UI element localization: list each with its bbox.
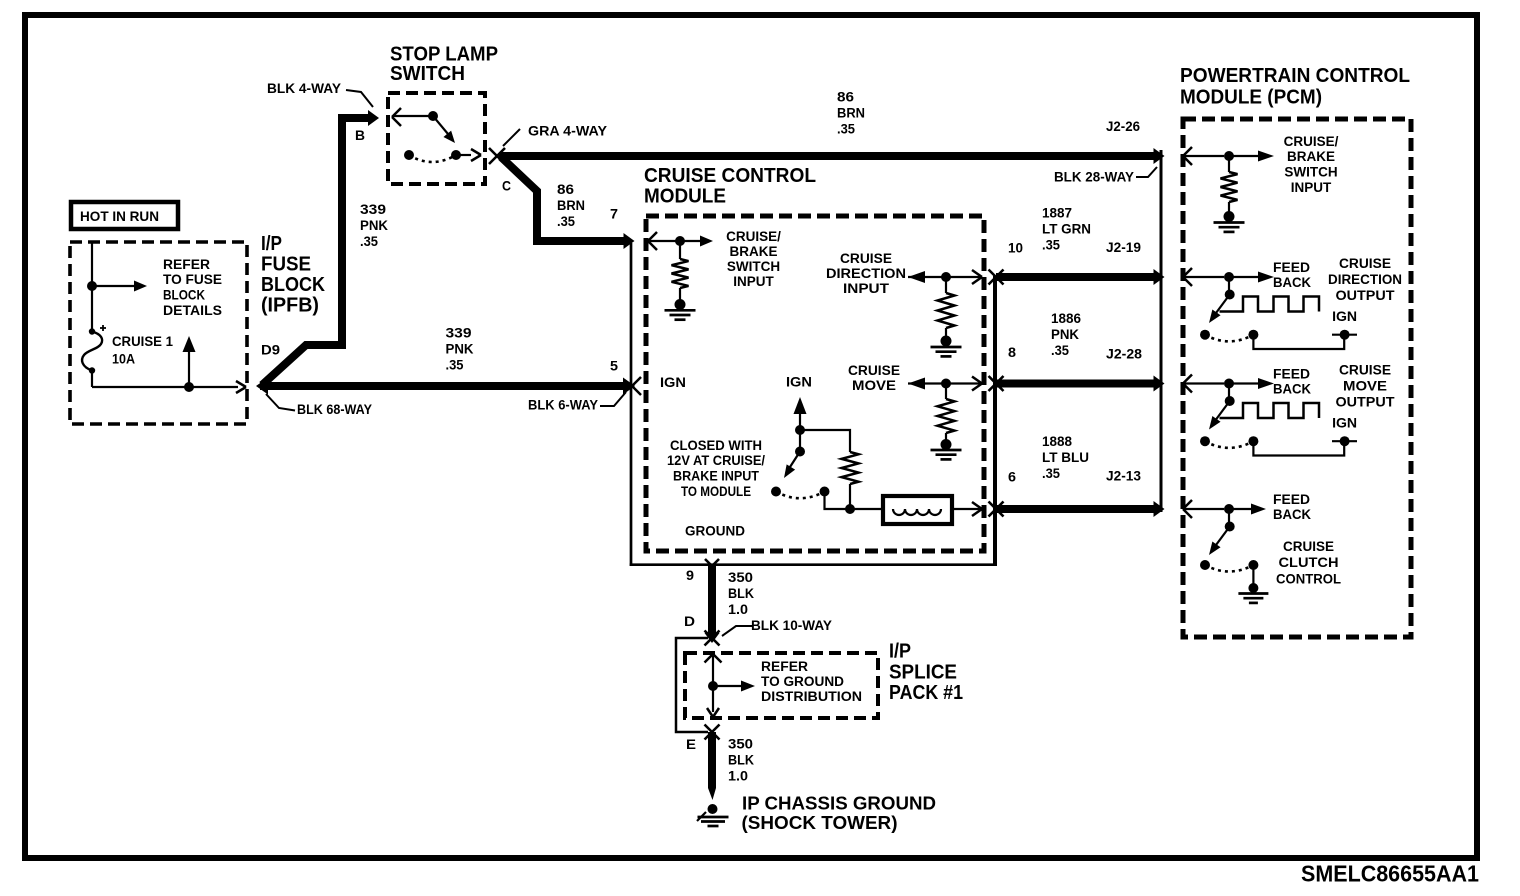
svg-text:OUTPUT: OUTPUT xyxy=(1336,288,1396,303)
svg-text:8: 8 xyxy=(1008,345,1017,360)
svg-text:1886: 1886 xyxy=(1051,311,1081,326)
svg-text:BLOCK: BLOCK xyxy=(163,288,205,303)
J2-13 chevron xyxy=(1183,500,1192,518)
label BLK 6-WAY xyxy=(528,398,598,413)
wire contact to coil xyxy=(825,492,882,510)
resistor R direction xyxy=(938,277,955,337)
node switch pivot dot xyxy=(428,111,438,121)
svg-text:6: 6 xyxy=(1008,469,1017,484)
svg-text:D: D xyxy=(684,614,695,629)
svg-text:BLK 68-WAY: BLK 68-WAY xyxy=(297,402,372,417)
label C xyxy=(502,179,511,194)
switch arm with arrow (module) xyxy=(784,452,800,479)
svg-text:BLK: BLK xyxy=(728,586,754,601)
label CRUISE MOVE OUTPUT xyxy=(1336,362,1396,409)
svg-text:BRAKE: BRAKE xyxy=(729,244,777,259)
wire junction to fuse xyxy=(91,286,93,331)
svg-text:CLOSED WITH: CLOSED WITH xyxy=(670,438,762,453)
label 1887 LT GRN .35 xyxy=(1042,206,1091,253)
wire 350 BLK to splice pack xyxy=(705,566,720,646)
svg-text:INPUT: INPUT xyxy=(1291,180,1332,195)
svg-text:CRUISE: CRUISE xyxy=(1339,256,1391,271)
node move resistor foot dot xyxy=(941,439,952,450)
node junction dot on output row xyxy=(184,382,194,392)
splice exit open arrow xyxy=(707,708,719,717)
svg-text:OUTPUT: OUTPUT xyxy=(1336,395,1396,410)
node direction resistor foot dot xyxy=(941,336,952,347)
svg-text:B: B xyxy=(355,128,365,143)
wire 350 BLK to chassis ground xyxy=(705,725,720,801)
label 339 PNK .35 (riser) xyxy=(360,202,388,249)
pin6 line and open arrow xyxy=(952,502,982,516)
wire 339 PNK D9 up to stop lamp switch B xyxy=(262,110,379,385)
label BLK 68-WAY xyxy=(297,402,372,417)
svg-text:CONTROL: CONTROL xyxy=(1276,571,1341,586)
svg-text:.35: .35 xyxy=(1042,238,1060,253)
svg-text:.35: .35 xyxy=(446,357,464,372)
ground (move) xyxy=(931,450,962,459)
coil box (clutch solenoid) xyxy=(883,496,952,524)
svg-text:(IPFB): (IPFB) xyxy=(261,294,319,316)
J2-13 line to junction xyxy=(1184,508,1224,510)
node J2-26 junction dot xyxy=(1224,151,1234,161)
svg-text:REFER: REFER xyxy=(163,257,210,272)
svg-text:MOVE: MOVE xyxy=(852,378,896,393)
svg-text:CRUISE: CRUISE xyxy=(1283,539,1334,554)
node resistor foot dot xyxy=(675,299,686,310)
svg-text:1887: 1887 xyxy=(1042,206,1072,221)
svg-text:HOT IN RUN: HOT IN RUN xyxy=(80,208,159,224)
power feed box HOT IN RUN xyxy=(71,202,178,229)
arrow feed back (direction) xyxy=(1229,272,1274,283)
label 1888 LT BLU .35 xyxy=(1042,434,1089,481)
label 6 xyxy=(1008,469,1017,484)
arrow to ground distribution note xyxy=(713,681,755,692)
wire fuse to output row xyxy=(92,371,238,388)
node pin7 junction dot xyxy=(675,236,685,246)
svg-text:DIRECTION: DIRECTION xyxy=(826,266,906,281)
label J2-13 xyxy=(1106,469,1141,484)
stop lamp switch dashed outline xyxy=(388,93,485,184)
svg-text:(SHOCK TOWER): (SHOCK TOWER) xyxy=(742,812,898,833)
node direction contact dot xyxy=(1200,330,1210,340)
svg-text:1.0: 1.0 xyxy=(728,602,748,617)
svg-text:E: E xyxy=(686,737,696,752)
label D9 xyxy=(261,342,280,357)
node clutch switch pivot dot xyxy=(1225,509,1235,532)
svg-text:BACK: BACK xyxy=(1273,507,1311,522)
node clutch ground dot xyxy=(1248,583,1258,593)
connector fishtail at C xyxy=(489,148,505,164)
splice entry chevron xyxy=(705,654,722,663)
label 10 xyxy=(1008,241,1023,256)
label CLOSED WITH 12V AT CRUISE/ BRAKE INPUT TO MODULE xyxy=(667,438,765,499)
label GRA 4-WAY xyxy=(528,124,607,139)
connector chevron at B xyxy=(392,108,401,126)
switch throw dashed arc (direction) xyxy=(1205,335,1253,342)
J2-28 chevron xyxy=(1183,375,1192,393)
svg-text:CRUISE/: CRUISE/ xyxy=(1284,134,1339,149)
label I/P SPLICE PACK #1 xyxy=(889,641,963,704)
I/P fuse block IPFB dashed outline xyxy=(70,242,247,424)
node junction dot xyxy=(87,281,97,291)
svg-text:1.0: 1.0 xyxy=(728,769,748,784)
connector face BLK 28-WAY line xyxy=(1160,150,1163,512)
svg-text:LT BLU: LT BLU xyxy=(1042,450,1089,465)
node clutch contact dot xyxy=(1200,560,1210,570)
svg-text:86: 86 xyxy=(557,182,575,197)
label E xyxy=(686,737,696,752)
label IGN (direction) xyxy=(1332,309,1357,324)
svg-text:BRAKE INPUT: BRAKE INPUT xyxy=(673,469,760,484)
svg-text:7: 7 xyxy=(610,207,618,222)
label 350 BLK 1.0 (lower) xyxy=(728,737,754,784)
resistor R move xyxy=(938,384,955,442)
pin7 chevron xyxy=(648,232,657,250)
svg-text:339: 339 xyxy=(446,325,472,340)
label J2-26 xyxy=(1106,119,1140,134)
node J2-28 junction dot xyxy=(1224,379,1234,389)
svg-text:BACK: BACK xyxy=(1273,381,1311,396)
label CRUISE DIRECTION INPUT xyxy=(826,251,906,296)
node direction junction dot xyxy=(941,272,951,282)
leader BLK 10-WAY xyxy=(722,626,752,636)
arrow cruise direction input xyxy=(908,271,944,283)
arrow cruise move xyxy=(908,378,944,390)
label FEED BACK (move) xyxy=(1273,366,1311,396)
arrow to fuse details note xyxy=(92,281,147,292)
cruise control module dashed outline xyxy=(646,216,984,551)
svg-text:J2-19: J2-19 xyxy=(1106,240,1141,255)
node IGN terminal dot (direction) xyxy=(1332,330,1357,340)
svg-text:IGN: IGN xyxy=(786,375,812,390)
square wave symbol (direction output) xyxy=(1220,297,1320,312)
switch arm with arrow (move) xyxy=(1209,401,1230,430)
svg-text:REFER: REFER xyxy=(761,659,808,674)
label FEED BACK (clutch) xyxy=(1273,492,1311,522)
svg-text:BLOCK: BLOCK xyxy=(261,274,325,296)
label 86 BRN .35 (branch) xyxy=(557,182,585,229)
wire 1886 PNK pin8 to J2-28 xyxy=(989,376,1165,392)
svg-text:BLK 4-WAY: BLK 4-WAY xyxy=(267,81,341,96)
switch output line with open arrow xyxy=(456,149,481,161)
label CRUISE CLUTCH CONTROL xyxy=(1276,539,1341,587)
resistor R input pulldown xyxy=(672,241,689,300)
svg-text:10A: 10A xyxy=(112,352,135,367)
connector arrow at D9 (wire end) xyxy=(256,378,268,395)
svg-text:FEED: FEED xyxy=(1273,260,1310,275)
svg-text:BRAKE: BRAKE xyxy=(1287,149,1335,164)
svg-text:.35: .35 xyxy=(360,234,378,249)
switch arm with arrow (direction) xyxy=(1209,295,1230,324)
node switch contact dot xyxy=(771,487,781,497)
svg-text:IP CHASSIS GROUND: IP CHASSIS GROUND xyxy=(742,793,936,814)
svg-text:.35: .35 xyxy=(1042,466,1060,481)
svg-text:SMELC86655AA1: SMELC86655AA1 xyxy=(1301,860,1479,886)
label 350 BLK 1.0 (upper) xyxy=(728,570,754,617)
pin8 line and open arrow xyxy=(946,377,982,391)
svg-text:PNK: PNK xyxy=(446,341,474,356)
svg-text:CLUTCH: CLUTCH xyxy=(1279,555,1339,570)
svg-text:SPLICE: SPLICE xyxy=(889,661,957,683)
wire ign to resistor xyxy=(800,430,850,452)
J2-28 line to junction xyxy=(1184,382,1224,384)
switch throw dashed arc (module) xyxy=(776,492,825,499)
svg-text:BLK 6-WAY: BLK 6-WAY xyxy=(528,398,598,413)
label 339 PNK .35 (lower run) xyxy=(446,325,474,372)
node J2-13 junction dot xyxy=(1224,504,1234,514)
label CRUISE 1 10A xyxy=(112,334,173,366)
J2-26 chevron xyxy=(1183,147,1192,165)
svg-text:J2-28: J2-28 xyxy=(1106,347,1143,362)
svg-text:SWITCH: SWITCH xyxy=(390,63,465,85)
splice internal wire xyxy=(712,656,714,712)
svg-text:FEED: FEED xyxy=(1273,492,1310,507)
wire throw to IGN (direction) xyxy=(1253,335,1344,349)
svg-text:PNK: PNK xyxy=(1051,327,1079,342)
svg-text:BLK 10-WAY: BLK 10-WAY xyxy=(751,618,832,633)
ground (module input) xyxy=(665,310,696,319)
label FEED BACK (direction) xyxy=(1273,260,1311,290)
svg-text:.35: .35 xyxy=(837,122,855,137)
svg-text:350: 350 xyxy=(728,737,753,752)
svg-text:I/P: I/P xyxy=(261,233,282,255)
switch arm with arrow xyxy=(433,116,455,143)
node switch contact left dot xyxy=(404,150,414,160)
node J2-19 junction dot xyxy=(1224,272,1234,282)
leader GRA 4-WAY xyxy=(503,129,520,146)
svg-text:J2-13: J2-13 xyxy=(1106,469,1141,484)
label I/P FUSE BLOCK (IPFB) xyxy=(261,233,325,316)
svg-text:CRUISE: CRUISE xyxy=(1339,362,1391,377)
svg-text:10: 10 xyxy=(1008,241,1023,256)
svg-text:C: C xyxy=(502,179,511,194)
svg-text:CRUISE: CRUISE xyxy=(848,363,900,378)
node splice junction dot xyxy=(708,681,718,691)
svg-text:CRUISE/: CRUISE/ xyxy=(726,229,781,244)
svg-text:FUSE: FUSE xyxy=(261,254,311,276)
J2-26 line to junction xyxy=(1184,155,1224,157)
svg-text:1888: 1888 xyxy=(1042,434,1072,449)
svg-text:TO FUSE: TO FUSE xyxy=(163,272,222,287)
wire 86 BRN branch to cruise module pin 7 xyxy=(501,157,635,249)
ground (PCM input) xyxy=(1214,223,1245,232)
svg-text:DISTRIBUTION: DISTRIBUTION xyxy=(761,689,862,704)
arrow feed back (clutch) xyxy=(1229,504,1266,515)
svg-text:PNK: PNK xyxy=(360,218,388,233)
pin7 line to junction xyxy=(650,240,676,242)
label BLK 28-WAY xyxy=(1054,170,1134,185)
svg-text:TO GROUND: TO GROUND xyxy=(761,674,844,689)
node ign junction dot xyxy=(795,425,805,435)
pin10 line and open arrow xyxy=(946,270,982,284)
ground (direction) xyxy=(931,347,962,356)
label CRUISE/ BRAKE SWITCH INPUT (module) xyxy=(726,229,781,289)
wire 86 BRN to PCM J2-26 xyxy=(499,148,1165,164)
I/P splice pack dashed outline xyxy=(685,653,878,718)
svg-text:5: 5 xyxy=(610,359,619,374)
label CRUISE DIRECTION OUTPUT xyxy=(1328,256,1402,303)
label D xyxy=(684,614,695,629)
label 8 xyxy=(1008,345,1017,360)
svg-text:9: 9 xyxy=(686,568,694,583)
note REFER TO FUSE BLOCK DETAILS xyxy=(163,257,222,318)
svg-text:.35: .35 xyxy=(1051,343,1069,358)
node direction switch pivot dot xyxy=(1225,277,1235,300)
svg-text:BACK: BACK xyxy=(1273,275,1311,290)
svg-text:IGN: IGN xyxy=(1332,309,1357,324)
label pin 7 xyxy=(610,207,618,222)
label B xyxy=(355,128,365,143)
pin9 start flare xyxy=(705,559,719,566)
svg-text:12V AT CRUISE/: 12V AT CRUISE/ xyxy=(667,453,765,468)
wire 1888 LT BLU pin6 to J2-13 xyxy=(989,501,1165,517)
PCM dashed outline xyxy=(1183,119,1411,637)
svg-text:339: 339 xyxy=(360,202,386,217)
wire 339 PNK D9 to cruise module pin 5 xyxy=(260,378,635,395)
node coil junction dot xyxy=(845,504,855,514)
ground IP chassis xyxy=(697,812,729,826)
arrow cruise/brake switch input (PCM) xyxy=(1229,151,1274,162)
label CRUISE MOVE xyxy=(848,363,900,393)
switch throw dashed arc (clutch) xyxy=(1205,565,1253,572)
label CRUISE/ BRAKE SWITCH INPUT (PCM) xyxy=(1284,134,1339,195)
node move contact dot xyxy=(1200,436,1210,446)
J2-19 line to junction xyxy=(1184,276,1224,278)
wire throw to ground (clutch) xyxy=(1252,565,1254,585)
svg-text:D9: D9 xyxy=(261,342,280,357)
svg-text:.35: .35 xyxy=(557,214,575,229)
switch input line xyxy=(393,115,431,117)
svg-text:DETAILS: DETAILS xyxy=(163,303,222,318)
svg-text:MODULE (PCM): MODULE (PCM) xyxy=(1180,87,1322,109)
node IGN terminal dot (move) xyxy=(1332,436,1357,446)
svg-text:DIRECTION: DIRECTION xyxy=(1328,272,1402,287)
label IP CHASSIS GROUND (SHOCK TOWER) xyxy=(742,793,937,833)
svg-text:I/P: I/P xyxy=(889,641,911,663)
svg-text:BLK 28-WAY: BLK 28-WAY xyxy=(1054,170,1134,185)
label 86 BRN .35 (top run) xyxy=(837,90,865,137)
switch throw dashed arc (move) xyxy=(1205,441,1253,448)
svg-text:TO MODULE: TO MODULE xyxy=(681,484,751,499)
arrow cruise/brake switch input xyxy=(680,236,713,247)
svg-text:MODULE: MODULE xyxy=(644,186,726,208)
svg-text:GROUND: GROUND xyxy=(685,524,745,539)
svg-text:GRA 4-WAY: GRA 4-WAY xyxy=(528,124,607,139)
connector face BLK 6-WAY / module connector xyxy=(630,243,995,566)
wire from box top to junction xyxy=(91,242,93,284)
square wave symbol (move output) xyxy=(1220,403,1320,418)
label pin 9 xyxy=(686,568,694,583)
ground (clutch control) xyxy=(1238,594,1268,603)
resistor R J2-26 pulldown xyxy=(1221,156,1238,213)
svg-text:SWITCH: SWITCH xyxy=(1284,165,1337,180)
note REFER TO GROUND DISTRIBUTION xyxy=(761,659,862,704)
leader BLK 28-WAY xyxy=(1136,167,1157,177)
svg-text:J2-26: J2-26 xyxy=(1106,119,1140,134)
svg-text:BLK: BLK xyxy=(728,753,754,768)
leader BLK 4-WAY xyxy=(346,90,373,107)
node switch contact right dot xyxy=(451,150,461,160)
label J2-28 xyxy=(1106,347,1143,362)
svg-text:IGN: IGN xyxy=(1332,415,1357,430)
pin5 chevron xyxy=(632,377,641,395)
label pin 5 xyxy=(610,359,619,374)
label IGN (move) xyxy=(1332,415,1357,430)
label J2-19 xyxy=(1106,240,1141,255)
fuse CRUISE 1 10A symbol xyxy=(82,325,106,374)
node switch pivot dot xyxy=(795,430,805,457)
node PCM resistor foot dot xyxy=(1224,211,1235,222)
label 1886 PNK .35 xyxy=(1051,311,1081,358)
label CRUISE CONTROL MODULE xyxy=(644,165,816,208)
svg-text:LT GRN: LT GRN xyxy=(1042,222,1091,237)
label BLK 10-WAY xyxy=(751,618,832,633)
svg-text:CRUISE: CRUISE xyxy=(840,251,892,266)
label IGN (pin5) xyxy=(660,375,686,390)
svg-text:86: 86 xyxy=(837,90,855,105)
leader BLK 6-WAY xyxy=(600,392,626,406)
svg-text:BRN: BRN xyxy=(557,198,585,213)
node clutch throw dot xyxy=(1248,560,1258,570)
switch arm with arrow (clutch) xyxy=(1209,527,1230,556)
wire throw to IGN (move) xyxy=(1253,441,1344,455)
label POWERTRAIN CONTROL MODULE (PCM) xyxy=(1180,65,1410,109)
svg-text:350: 350 xyxy=(728,570,753,585)
switch throw dashed arc xyxy=(409,155,456,162)
node move throw dot xyxy=(1248,436,1258,446)
arrow feed back (move) xyxy=(1229,378,1274,389)
node direction throw dot xyxy=(1248,330,1258,340)
svg-text:IGN: IGN xyxy=(660,375,686,390)
leader BLK 68-WAY xyxy=(266,394,295,411)
svg-text:FEED: FEED xyxy=(1273,366,1310,381)
svg-text:INPUT: INPUT xyxy=(733,274,774,289)
label GROUND xyxy=(685,524,745,539)
node move junction dot xyxy=(941,379,951,389)
label BLK 4-WAY xyxy=(267,81,341,96)
node throw dot xyxy=(820,487,830,497)
svg-text:BRN: BRN xyxy=(837,106,865,121)
svg-text:SWITCH: SWITCH xyxy=(727,259,780,274)
part number SMELC86655AA1 xyxy=(1301,860,1479,886)
svg-text:INPUT: INPUT xyxy=(843,281,890,296)
branch arrow up xyxy=(183,336,196,387)
label IGN (middle) xyxy=(786,375,812,390)
resistor R clutch drive xyxy=(842,452,859,507)
wire 1887 LT GRN pin10 to J2-19 xyxy=(989,269,1165,285)
node chassis ground dot xyxy=(708,804,718,814)
svg-text:MOVE: MOVE xyxy=(1343,379,1387,394)
node move switch pivot dot xyxy=(1225,384,1235,407)
arrow to IGN xyxy=(794,397,807,428)
connector face BLK 10-WAY line xyxy=(676,638,708,732)
svg-text:CRUISE CONTROL: CRUISE CONTROL xyxy=(644,165,816,187)
J2-19 chevron xyxy=(1183,268,1192,286)
svg-text:PACK #1: PACK #1 xyxy=(889,682,963,704)
label STOP LAMP SWITCH xyxy=(390,44,498,85)
svg-text:POWERTRAIN CONTROL: POWERTRAIN CONTROL xyxy=(1180,65,1410,87)
svg-text:CRUISE 1: CRUISE 1 xyxy=(112,334,173,349)
open arrow to D9 terminal xyxy=(236,381,246,393)
